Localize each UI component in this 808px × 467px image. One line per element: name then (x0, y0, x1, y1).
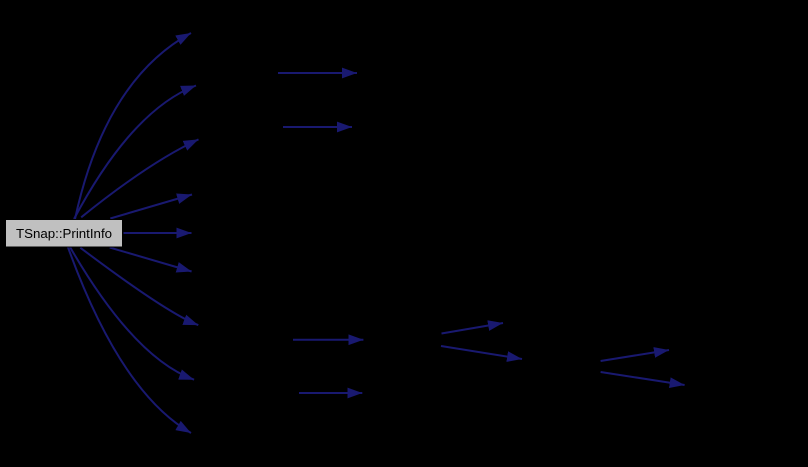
edge nodeC->nodeF (down-right) (441, 346, 522, 359)
edge node7->nodeC (straight) (293, 339, 363, 341)
edge node2->nodeB (straight) (283, 126, 352, 128)
edge PrintInfo->node5 (horizontal) (124, 232, 192, 234)
edge PrintInfo->node3 (top curve 3) (81, 139, 198, 217)
edge nodeF->nodeH (down-right) (601, 372, 685, 385)
edge nodeC->nodeE (up-right) (442, 323, 504, 334)
edge PrintInfo->node1 (top curve 1) (75, 33, 191, 219)
svg-text:TSnap::PrintInfo: TSnap::PrintInfo (16, 226, 112, 241)
edge PrintInfo->node6 (bottom curve 1) (110, 248, 192, 272)
node TSnap::PrintInfo (6, 220, 123, 248)
edge PrintInfo->node7 (bottom curve 2) (80, 248, 198, 325)
edge node1->nodeA (straight) (278, 72, 357, 74)
edge PrintInfo->node8 (bottom curve 3) (70, 247, 194, 380)
edge nodeF->nodeG (up-right) (601, 350, 669, 361)
edge PrintInfo->node4 (top curve 4) (110, 195, 192, 219)
edge node8->nodeD (straight) (299, 392, 362, 394)
edge PrintInfo->node2 (top curve 2) (74, 86, 196, 220)
edge PrintInfo->node9 (bottom curve 4) (68, 247, 191, 433)
